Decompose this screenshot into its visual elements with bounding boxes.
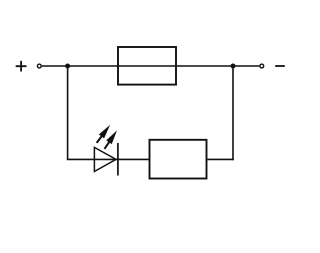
minus terminal label xyxy=(275,65,285,67)
wire left vertical xyxy=(67,66,69,159)
LED arrow 2 xyxy=(102,128,120,150)
terminal circle right xyxy=(260,64,264,68)
LED arrow 1 xyxy=(94,123,113,145)
resistor module xyxy=(150,140,207,179)
terminal circle left xyxy=(37,64,41,68)
plus terminal label xyxy=(16,61,27,72)
LED D1 triangle xyxy=(94,147,116,171)
wire bottom left xyxy=(67,158,150,160)
node junction left xyxy=(65,64,70,69)
LED D1 cathode bar xyxy=(117,143,119,176)
wire right vertical xyxy=(232,66,234,160)
wire main top xyxy=(42,65,259,67)
node junction right xyxy=(231,64,236,69)
fuse F1 xyxy=(118,47,176,85)
wire bottom right xyxy=(207,158,234,160)
